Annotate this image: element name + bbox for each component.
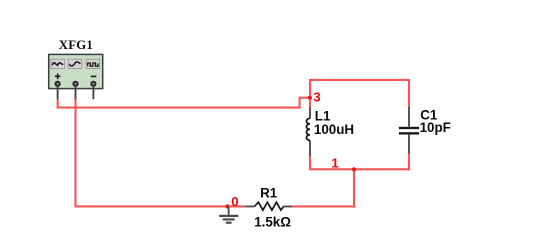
svg-text:1.5kΩ: 1.5kΩ <box>254 215 291 230</box>
inductor L1 <box>306 108 310 156</box>
svg-text:1: 1 <box>331 155 338 170</box>
wire: tank loop bottom <box>310 153 409 170</box>
wire: XFG1 plus terminal down and right to node 3 step <box>58 98 311 108</box>
terminal common <box>72 81 78 87</box>
svg-text:R1: R1 <box>260 186 278 201</box>
svg-text:XFG1: XFG1 <box>59 38 93 52</box>
wire: XFG1 middle terminal down to bottom rail <box>76 99 247 207</box>
svg-text:10pF: 10pF <box>420 120 451 135</box>
wire: resistor right lead to junction 1 riser <box>291 169 354 206</box>
node 1 junction dot <box>352 167 356 171</box>
pin stub + <box>57 87 59 99</box>
button sine 2 <box>68 59 82 68</box>
minus marking <box>91 75 97 77</box>
svg-text:0: 0 <box>231 194 238 209</box>
node 3 junction dot <box>308 96 312 100</box>
capacitor C1 <box>399 107 419 153</box>
terminal - <box>90 81 96 87</box>
wire: tank loop top <box>310 80 409 109</box>
pin stub common <box>75 87 77 99</box>
pin stub - <box>92 87 94 99</box>
button sine/triangle 1 <box>51 59 65 68</box>
resistor R1 <box>246 202 292 210</box>
svg-text:3: 3 <box>313 90 320 105</box>
plus marking <box>55 74 61 80</box>
terminal + <box>55 81 61 87</box>
button square 3 <box>86 59 100 68</box>
ground <box>219 206 238 222</box>
node 0 junction dot <box>225 204 229 208</box>
function generator XFG1 <box>49 38 103 99</box>
XFG1 body <box>49 54 103 88</box>
svg-text:100uH: 100uH <box>314 122 354 137</box>
